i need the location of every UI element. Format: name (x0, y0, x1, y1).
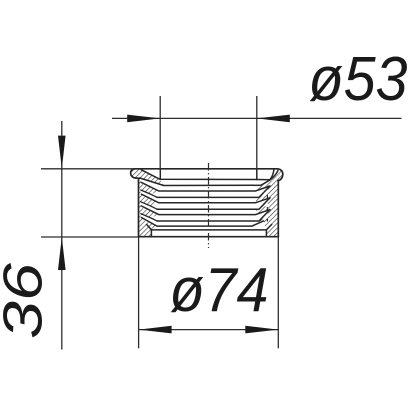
svg-text:ø53: ø53 (309, 44, 408, 114)
svg-text:36: 36 (0, 263, 54, 339)
svg-text:ø74: ø74 (170, 255, 269, 325)
